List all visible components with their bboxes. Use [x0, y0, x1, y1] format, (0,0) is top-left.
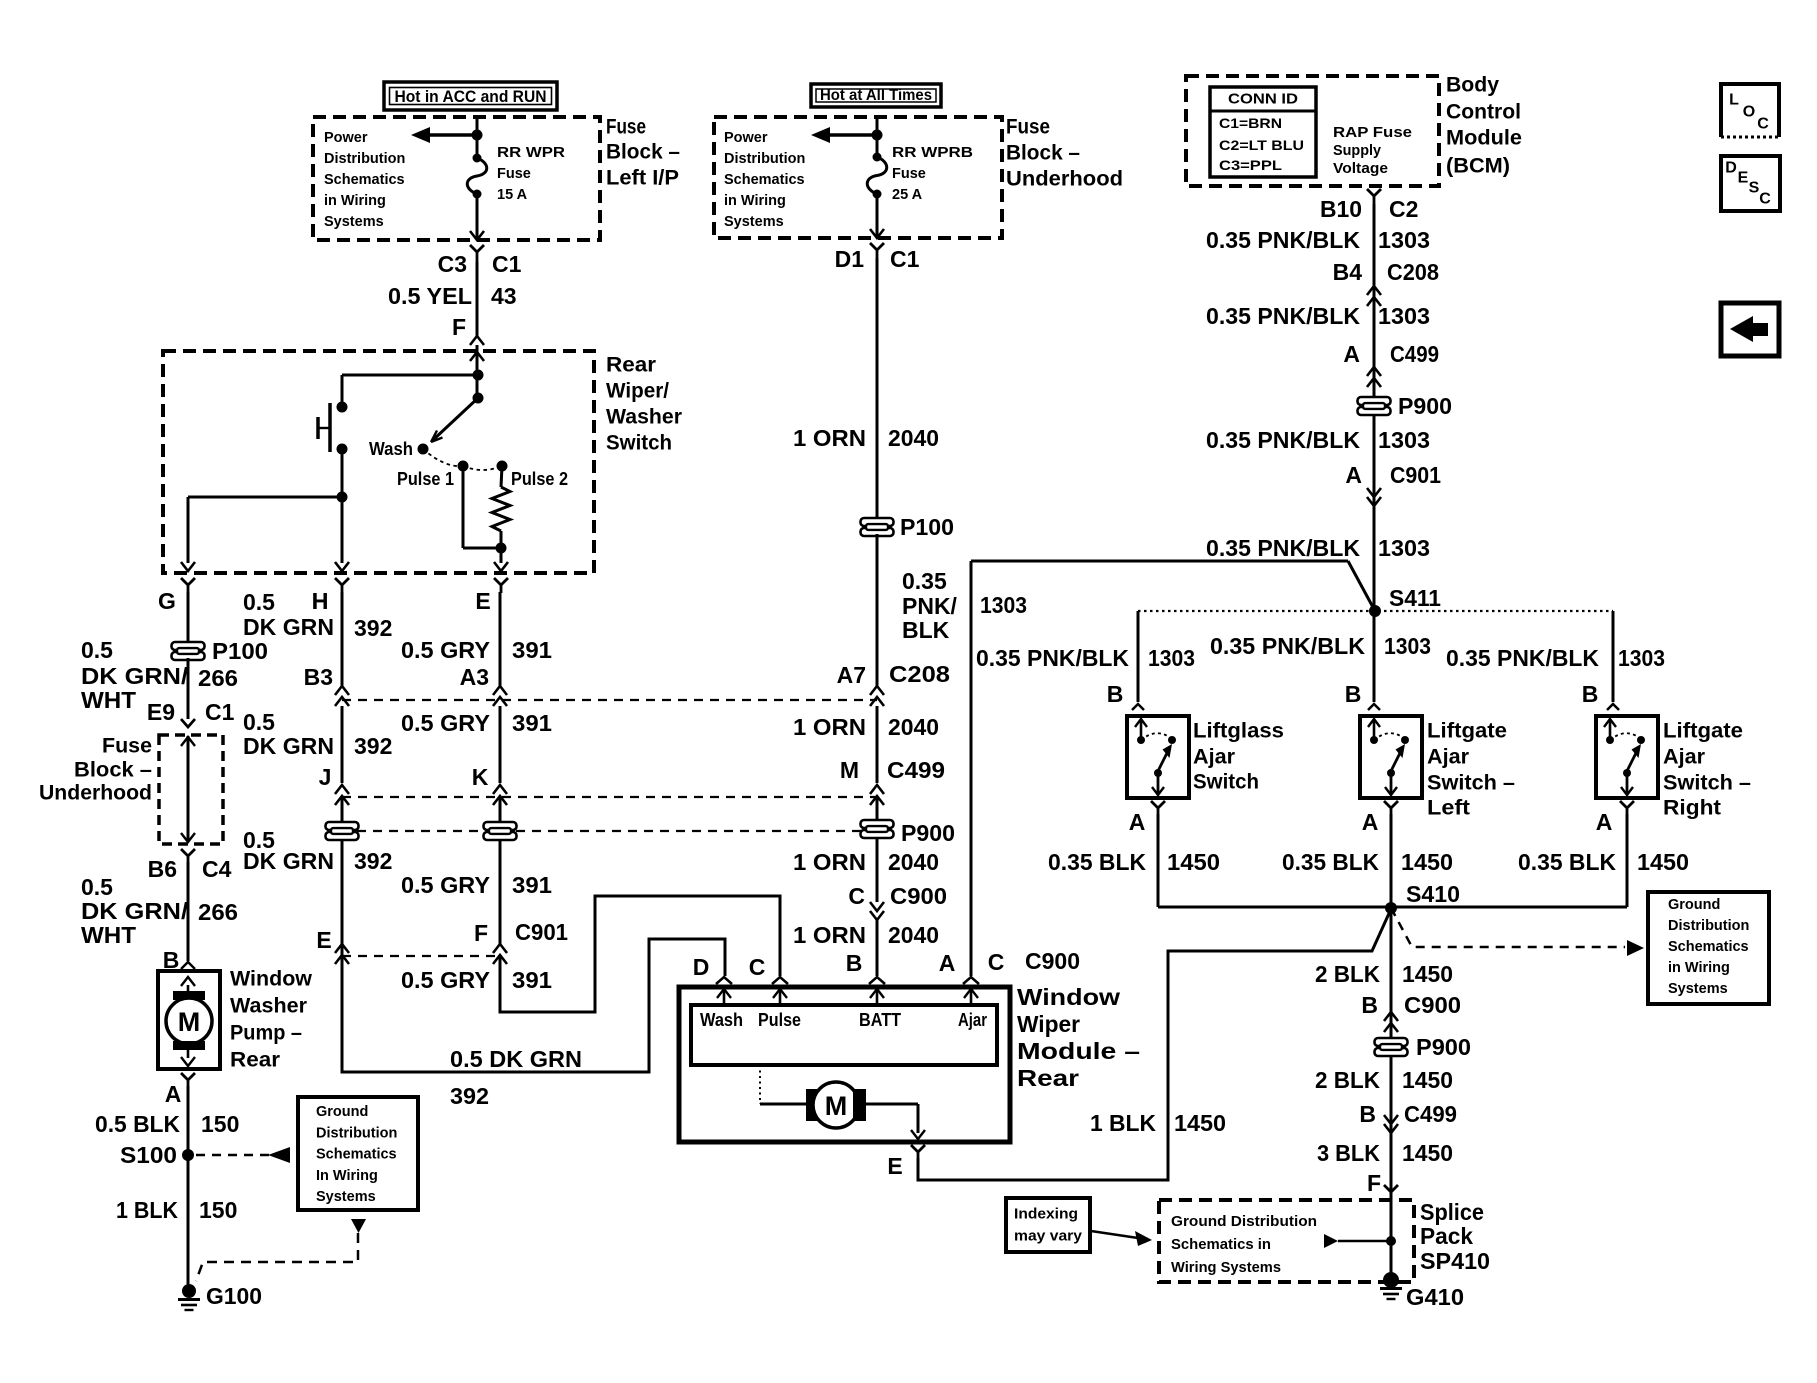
wire 0.35 BLK 1450 liftglass	[1157, 814, 1160, 907]
wire 0.5 DK GRN 392 mid	[341, 706, 344, 783]
svg-text:Ground: Ground	[316, 1104, 368, 1120]
dotted splice line S411	[1138, 610, 1613, 612]
wire segment to P900	[341, 796, 344, 964]
svg-text:A3: A3	[460, 664, 489, 690]
svg-text:S: S	[1749, 180, 1760, 197]
svg-text:Left I/P: Left I/P	[606, 167, 679, 190]
pin A liftgate right switch	[1620, 801, 1634, 814]
svg-text:B: B	[1361, 992, 1378, 1018]
svg-text:E: E	[316, 927, 331, 953]
svg-text:G410: G410	[1406, 1284, 1464, 1310]
node junction at fuse feed mid	[872, 130, 883, 141]
svg-text:may vary: may vary	[1014, 1228, 1083, 1245]
wire 0.35 PNK/BLK 1303 segment	[876, 534, 879, 686]
node wiper arm pivot	[473, 393, 484, 404]
svg-text:B: B	[1345, 681, 1362, 707]
wire feed into fuse RR WPR	[476, 117, 479, 158]
svg-text:B10: B10	[1320, 196, 1362, 222]
wire 0.35 PNK/BLK 1303 liftglass	[1137, 611, 1140, 702]
svg-text:Systems: Systems	[1668, 981, 1728, 997]
svg-text:Pulse 2: Pulse 2	[511, 469, 568, 489]
svg-text:Voltage: Voltage	[1333, 161, 1388, 177]
svg-text:0.35: 0.35	[902, 568, 947, 594]
arrows out of switch	[181, 562, 195, 571]
wire 1 ORN 2040 second	[876, 706, 879, 783]
svg-text:C: C	[848, 883, 865, 909]
wire 2 BLK 1450 upper	[1390, 908, 1393, 1281]
wire 1 ORN 2040 to wiper module BATT	[876, 920, 879, 976]
svg-text:266: 266	[198, 899, 238, 925]
svg-text:C: C	[749, 954, 766, 980]
svg-text:E: E	[475, 588, 490, 614]
inline connector P900 left	[326, 822, 359, 840]
svg-text:E: E	[1738, 170, 1749, 187]
liftglass ajar switch box	[1127, 716, 1189, 798]
svg-text:C499: C499	[1404, 1101, 1457, 1127]
svg-text:0.5 YEL: 0.5 YEL	[388, 283, 472, 309]
svg-text:Wiring Systems: Wiring Systems	[1171, 1260, 1281, 1276]
svg-text:Power: Power	[324, 130, 368, 146]
svg-text:Switch –: Switch –	[1427, 772, 1515, 795]
svg-text:1 BLK: 1 BLK	[1090, 1110, 1156, 1136]
svg-text:Block –: Block –	[1006, 142, 1080, 165]
svg-text:0.5 DK GRN: 0.5 DK GRN	[450, 1046, 582, 1072]
svg-text:2040: 2040	[888, 922, 939, 948]
svg-text:Underhood: Underhood	[1006, 168, 1123, 191]
svg-text:Ajar: Ajar	[1663, 746, 1705, 769]
label box Hot at All Times	[811, 84, 941, 107]
pin A liftglass switch	[1151, 801, 1165, 814]
svg-text:Switch –: Switch –	[1663, 772, 1751, 795]
svg-text:B: B	[1359, 1101, 1376, 1127]
svg-text:Distribution: Distribution	[316, 1125, 397, 1141]
svg-text:CONN ID: CONN ID	[1228, 91, 1298, 108]
inline connector P900 bottom	[1375, 1038, 1408, 1056]
svg-text:DK GRN/: DK GRN/	[81, 663, 189, 689]
svg-text:0.35 BLK: 0.35 BLK	[1282, 849, 1379, 875]
svg-text:Schematics: Schematics	[316, 1147, 397, 1163]
svg-text:S410: S410	[1406, 881, 1460, 907]
svg-text:C499: C499	[887, 757, 945, 783]
liftgate ajar switch - left box	[1360, 716, 1422, 798]
svg-text:Wiper: Wiper	[1017, 1011, 1080, 1037]
svg-text:Washer: Washer	[230, 995, 307, 1018]
svg-text:Wash: Wash	[700, 1010, 743, 1030]
wire motor to ground pin E	[866, 1103, 918, 1106]
svg-text:Rear: Rear	[606, 354, 656, 377]
svg-text:Ground Distribution: Ground Distribution	[1171, 1214, 1317, 1230]
svg-text:0.5: 0.5	[81, 637, 113, 663]
svg-text:SP410: SP410	[1420, 1248, 1490, 1274]
module pin connectors D C B A	[716, 977, 732, 984]
svg-text:Fuse: Fuse	[892, 166, 926, 182]
splice S411	[1369, 605, 1381, 617]
svg-text:0.35 PNK/BLK: 0.35 PNK/BLK	[1206, 427, 1360, 453]
svg-text:RR WPR: RR WPR	[497, 145, 566, 161]
svg-text:Block –: Block –	[606, 141, 680, 164]
splice pack SP410 dashed box	[1159, 1200, 1414, 1282]
motor symbol washer pump	[181, 977, 195, 986]
svg-text:1450: 1450	[1637, 849, 1689, 875]
svg-text:Fuse: Fuse	[102, 735, 152, 758]
svg-text:Systems: Systems	[324, 214, 384, 230]
svg-text:B: B	[846, 950, 863, 976]
svg-text:0.5 GRY: 0.5 GRY	[401, 872, 490, 898]
svg-text:Wiper/: Wiper/	[606, 380, 669, 403]
svg-text:Underhood: Underhood	[39, 782, 152, 805]
svg-text:Rear: Rear	[1017, 1065, 1079, 1091]
svg-text:C900: C900	[1025, 948, 1080, 974]
svg-text:M: M	[840, 757, 859, 783]
wire contact to pin H	[341, 449, 344, 563]
svg-text:0.5: 0.5	[81, 874, 113, 900]
arrow out of fuse block	[470, 231, 484, 240]
svg-text:Body: Body	[1446, 74, 1499, 97]
svg-text:C: C	[1757, 116, 1769, 133]
inline connector P900 right	[1358, 397, 1391, 415]
wire 0.35 PNK/BLK 1303 liftgate right	[1612, 611, 1615, 702]
connector pins G H E	[181, 578, 195, 593]
svg-text:2040: 2040	[888, 425, 939, 451]
svg-text:392: 392	[354, 615, 392, 641]
svg-text:25 A: 25 A	[892, 187, 923, 203]
svg-text:1 ORN: 1 ORN	[793, 849, 866, 875]
svg-text:Liftglass: Liftglass	[1193, 720, 1284, 743]
node splice junction	[1386, 1236, 1396, 1246]
svg-text:3 BLK: 3 BLK	[1317, 1140, 1380, 1166]
dashed harness line E-F	[342, 955, 500, 957]
svg-text:2 BLK: 2 BLK	[1315, 961, 1380, 987]
svg-text:Window: Window	[1017, 984, 1120, 1010]
svg-text:Indexing: Indexing	[1014, 1206, 1078, 1223]
svg-text:266: 266	[198, 665, 238, 691]
svg-text:43: 43	[491, 283, 517, 309]
arrow to power distribution mid	[830, 133, 877, 137]
svg-text:1303: 1303	[1148, 645, 1195, 671]
svg-text:392: 392	[450, 1083, 489, 1109]
wire 0.35 BLK 1450 liftgate left	[1390, 814, 1393, 908]
svg-text:1450: 1450	[1402, 1067, 1453, 1093]
svg-text:D: D	[1725, 160, 1737, 177]
svg-text:F: F	[452, 314, 466, 340]
svg-text:Washer: Washer	[606, 406, 682, 429]
svg-text:C499: C499	[1390, 341, 1439, 367]
svg-text:C901: C901	[515, 919, 568, 945]
wire feed into fuse RR WPRB	[876, 117, 879, 157]
window wiper module - rear box	[679, 987, 1010, 1142]
svg-text:0.35 PNK/BLK: 0.35 PNK/BLK	[1210, 633, 1365, 659]
svg-text:S100: S100	[120, 1142, 177, 1168]
wire 0.5 DK GRN 392 to wiper module Wash	[342, 939, 725, 1072]
svg-text:1303: 1303	[1378, 227, 1430, 253]
arrow indexing note to splice pack	[1091, 1231, 1138, 1238]
node resistor junction	[496, 543, 507, 554]
inline connector P900 mid	[484, 822, 517, 840]
svg-text:P900: P900	[1398, 393, 1452, 419]
svg-text:in Wiring: in Wiring	[1668, 960, 1730, 976]
svg-text:Switch: Switch	[1193, 771, 1259, 794]
wire Pulse 1 to resistor bottom	[462, 466, 465, 548]
svg-text:Distribution: Distribution	[324, 151, 405, 167]
svg-text:Fuse: Fuse	[1006, 116, 1050, 139]
svg-text:P900: P900	[1416, 1034, 1471, 1060]
svg-text:Right: Right	[1663, 797, 1721, 820]
svg-text:1303: 1303	[1378, 427, 1430, 453]
svg-text:Block –: Block –	[74, 759, 152, 782]
contact dot lower	[337, 444, 348, 455]
wire pin G down	[187, 592, 190, 644]
svg-text:Left: Left	[1427, 797, 1470, 820]
svg-text:1450: 1450	[1402, 961, 1453, 987]
svg-text:Ajar: Ajar	[1193, 746, 1235, 769]
svg-text:1 ORN: 1 ORN	[793, 714, 866, 740]
svg-text:G100: G100	[206, 1283, 262, 1309]
svg-text:0.5 GRY: 0.5 GRY	[401, 637, 490, 663]
svg-text:1450: 1450	[1174, 1110, 1226, 1136]
svg-text:K: K	[472, 764, 489, 790]
svg-text:B3: B3	[304, 664, 333, 690]
svg-text:Liftgate: Liftgate	[1663, 720, 1743, 743]
switch positions dashed arc	[423, 449, 463, 466]
wire segment through P900 mid	[876, 796, 879, 902]
svg-text:0.5 GRY: 0.5 GRY	[401, 710, 490, 736]
CONN ID table	[1210, 87, 1316, 177]
svg-text:C1: C1	[890, 246, 920, 272]
svg-text:C1: C1	[205, 699, 235, 725]
svg-text:1 ORN: 1 ORN	[793, 922, 866, 948]
arrow to power distribution	[430, 133, 477, 137]
svg-text:C208: C208	[1387, 259, 1439, 285]
motor M wiper module	[806, 1089, 819, 1121]
svg-text:D: D	[693, 954, 710, 980]
wire switch feed	[476, 345, 479, 398]
svg-text:RAP Fuse: RAP Fuse	[1333, 125, 1412, 141]
svg-text:C1=BRN: C1=BRN	[1219, 115, 1282, 131]
wire 1 ORN 2040 upper	[876, 258, 879, 520]
fuse block - underhood dashed box	[714, 117, 1002, 238]
connector C1 pin C3	[470, 245, 484, 262]
switch wiper arm to Wash	[433, 398, 478, 440]
wire segment through P900	[499, 796, 502, 944]
svg-text:C3=PPL: C3=PPL	[1219, 157, 1283, 173]
wire 0.5 DK GRN 392 pin H	[341, 592, 344, 686]
svg-text:G: G	[158, 588, 176, 614]
svg-text:1450: 1450	[1401, 849, 1453, 875]
wire 0.5 BLK 150	[187, 1086, 190, 1287]
dashed reference to ground distribution right	[1391, 908, 1625, 947]
wire 1 BLK 1450 module ground	[918, 909, 1391, 1180]
svg-text:C4: C4	[202, 856, 232, 882]
svg-text:392: 392	[354, 848, 392, 874]
svg-text:0.35 PNK/BLK: 0.35 PNK/BLK	[976, 645, 1129, 671]
svg-text:Distribution: Distribution	[1668, 918, 1749, 934]
svg-text:E: E	[887, 1153, 902, 1179]
note box Indexing may vary	[1006, 1198, 1090, 1252]
svg-text:0.35 PNK/BLK: 0.35 PNK/BLK	[1206, 303, 1360, 329]
svg-text:WHT: WHT	[81, 687, 136, 713]
fuse RR WPRB 25 A	[873, 153, 882, 162]
svg-text:2040: 2040	[888, 849, 939, 875]
svg-text:Splice: Splice	[1420, 1199, 1484, 1225]
svg-text:DK GRN/: DK GRN/	[81, 898, 189, 924]
node junction at fuse feed	[472, 130, 483, 141]
dashed reference to ground distribution	[196, 1154, 270, 1157]
svg-text:Ground: Ground	[1668, 897, 1720, 913]
svg-text:150: 150	[201, 1111, 239, 1137]
wire 0.5 GRY 391 pin E	[499, 592, 502, 686]
wire 0.5 DK GRN/WHT 266 upper	[187, 658, 190, 719]
connector C1 pin D1	[870, 243, 884, 258]
svg-text:In Wiring: In Wiring	[316, 1168, 378, 1184]
svg-text:1303: 1303	[1378, 303, 1430, 329]
svg-text:Liftgate: Liftgate	[1427, 720, 1507, 743]
svg-text:A: A	[1596, 809, 1613, 835]
svg-text:B6: B6	[148, 856, 177, 882]
svg-text:Systems: Systems	[316, 1189, 376, 1205]
note box Ground Distribution Schematics in Wiring Systems (right)	[1648, 892, 1769, 1004]
svg-text:in Wiring: in Wiring	[724, 193, 786, 209]
svg-text:Ajar: Ajar	[958, 1010, 987, 1030]
svg-text:J: J	[319, 764, 332, 790]
module pin entry arrows	[723, 990, 726, 1005]
ground G410	[1383, 1272, 1399, 1288]
pin C2 B10 of BCM	[1367, 189, 1381, 204]
svg-text:DK GRN: DK GRN	[243, 733, 334, 759]
rear wiper/washer switch dashed box	[163, 351, 594, 573]
dashed harness line B3-A3-A7	[342, 699, 877, 701]
svg-text:A: A	[165, 1081, 182, 1107]
dashed harness line P900 row	[357, 830, 484, 832]
wire 0.35 PNK/BLK 1303 from BCM	[1373, 204, 1376, 702]
svg-text:2040: 2040	[888, 714, 939, 740]
svg-text:0.35 BLK: 0.35 BLK	[1518, 849, 1616, 875]
svg-text:C900: C900	[1404, 992, 1461, 1018]
svg-text:Schematics in: Schematics in	[1171, 1237, 1271, 1253]
svg-text:O: O	[1743, 104, 1755, 121]
svg-text:A: A	[1345, 462, 1362, 488]
svg-text:A: A	[1129, 809, 1146, 835]
svg-text:0.35 PNK/BLK: 0.35 PNK/BLK	[1446, 645, 1599, 671]
note box Ground Distribution Schematics In Wiring Systems (left)	[298, 1097, 418, 1210]
contact dot upper	[337, 402, 348, 413]
wire 0.5 GRY 391 mid	[499, 706, 502, 783]
svg-text:0.35 BLK: 0.35 BLK	[1048, 849, 1146, 875]
svg-text:C: C	[1759, 191, 1771, 208]
svg-text:Hot in ACC and RUN: Hot in ACC and RUN	[395, 87, 547, 106]
svg-text:Schematics: Schematics	[324, 172, 405, 188]
svg-text:P900: P900	[901, 820, 955, 846]
wire to off contact	[342, 374, 478, 377]
contact Pulse 2	[497, 461, 508, 472]
window washer pump - rear box	[158, 971, 220, 1069]
svg-text:Systems: Systems	[724, 214, 784, 230]
svg-text:Switch: Switch	[606, 432, 672, 455]
svg-text:0.35 PNK/BLK: 0.35 PNK/BLK	[1206, 535, 1360, 561]
dashed harness line J-K-M	[342, 796, 877, 798]
svg-text:Fuse: Fuse	[497, 166, 531, 182]
svg-text:Window: Window	[230, 968, 313, 991]
splice arrow to wire	[1324, 1234, 1338, 1248]
svg-text:B: B	[1582, 681, 1599, 707]
svg-text:RR WPRB: RR WPRB	[892, 145, 973, 161]
svg-text:391: 391	[512, 710, 552, 736]
svg-text:1303: 1303	[1384, 633, 1431, 659]
svg-text:Ajar: Ajar	[1427, 746, 1469, 769]
svg-text:(BCM): (BCM)	[1446, 155, 1510, 178]
svg-text:Pulse 1: Pulse 1	[397, 469, 454, 489]
svg-text:150: 150	[199, 1197, 237, 1223]
svg-text:P100: P100	[212, 638, 268, 664]
svg-text:391: 391	[512, 872, 552, 898]
svg-text:S411: S411	[1389, 585, 1441, 611]
label box Hot in ACC and RUN	[384, 82, 557, 110]
svg-text:C2=LT BLU: C2=LT BLU	[1219, 137, 1304, 153]
wire 0.5 DK GRN/WHT 266 lower	[187, 862, 190, 961]
wiper motor link	[759, 1065, 761, 1104]
svg-text:1303: 1303	[980, 592, 1027, 618]
node tie to pin G	[337, 492, 348, 503]
svg-text:F: F	[1367, 1170, 1381, 1196]
svg-text:A: A	[1343, 341, 1360, 367]
svg-text:Schematics: Schematics	[1668, 939, 1749, 955]
pointer from note box	[351, 1219, 366, 1233]
svg-text:B4: B4	[1333, 259, 1363, 285]
svg-text:Fuse: Fuse	[606, 116, 646, 139]
svg-text:D1: D1	[835, 246, 865, 272]
svg-text:WHT: WHT	[81, 922, 136, 948]
liftgate right switch internals	[1609, 721, 1612, 740]
svg-text:1450: 1450	[1167, 849, 1220, 875]
LOC tab box	[1721, 84, 1779, 137]
svg-text:PNK/: PNK/	[902, 593, 958, 619]
svg-text:DK GRN: DK GRN	[243, 848, 334, 874]
ground G100	[182, 1284, 196, 1298]
wire to pin G	[188, 496, 342, 499]
svg-text:0.5: 0.5	[243, 589, 275, 615]
svg-text:C1: C1	[492, 251, 522, 277]
svg-text:391: 391	[512, 637, 552, 663]
svg-text:0.5 BLK: 0.5 BLK	[95, 1111, 180, 1137]
fuse block - underhood pass-through dashed box	[187, 736, 190, 842]
svg-text:Control: Control	[1446, 101, 1521, 124]
svg-text:392: 392	[354, 733, 392, 759]
svg-text:Supply: Supply	[1333, 143, 1381, 159]
svg-text:C3: C3	[438, 251, 467, 277]
svg-text:H: H	[312, 588, 329, 614]
pin E of wiper module	[911, 1145, 925, 1158]
off contact bars	[328, 403, 332, 452]
svg-text:C901: C901	[1390, 462, 1441, 488]
splice S410	[1385, 902, 1397, 914]
svg-text:BLK: BLK	[902, 617, 950, 643]
liftglass ajar switch internals	[1140, 721, 1143, 740]
svg-text:Module: Module	[1446, 127, 1522, 150]
svg-text:1303: 1303	[1378, 535, 1430, 561]
wire 0.35 PNK/BLK to wiper module Ajar	[970, 561, 973, 976]
fuse block - left I/P dashed box	[313, 117, 600, 240]
svg-text:B: B	[1107, 681, 1124, 707]
svg-text:Rear: Rear	[230, 1049, 280, 1072]
svg-text:C208: C208	[889, 661, 950, 687]
svg-text:0.5: 0.5	[243, 709, 275, 735]
connector C4 pin B6	[181, 849, 195, 862]
svg-text:C: C	[988, 949, 1005, 975]
inline connector P900 (BATT feed)	[861, 820, 894, 838]
svg-text:BATT: BATT	[859, 1010, 901, 1030]
svg-text:M: M	[825, 1091, 848, 1121]
svg-text:15 A: 15 A	[497, 187, 528, 203]
wire to pin E	[500, 548, 503, 563]
